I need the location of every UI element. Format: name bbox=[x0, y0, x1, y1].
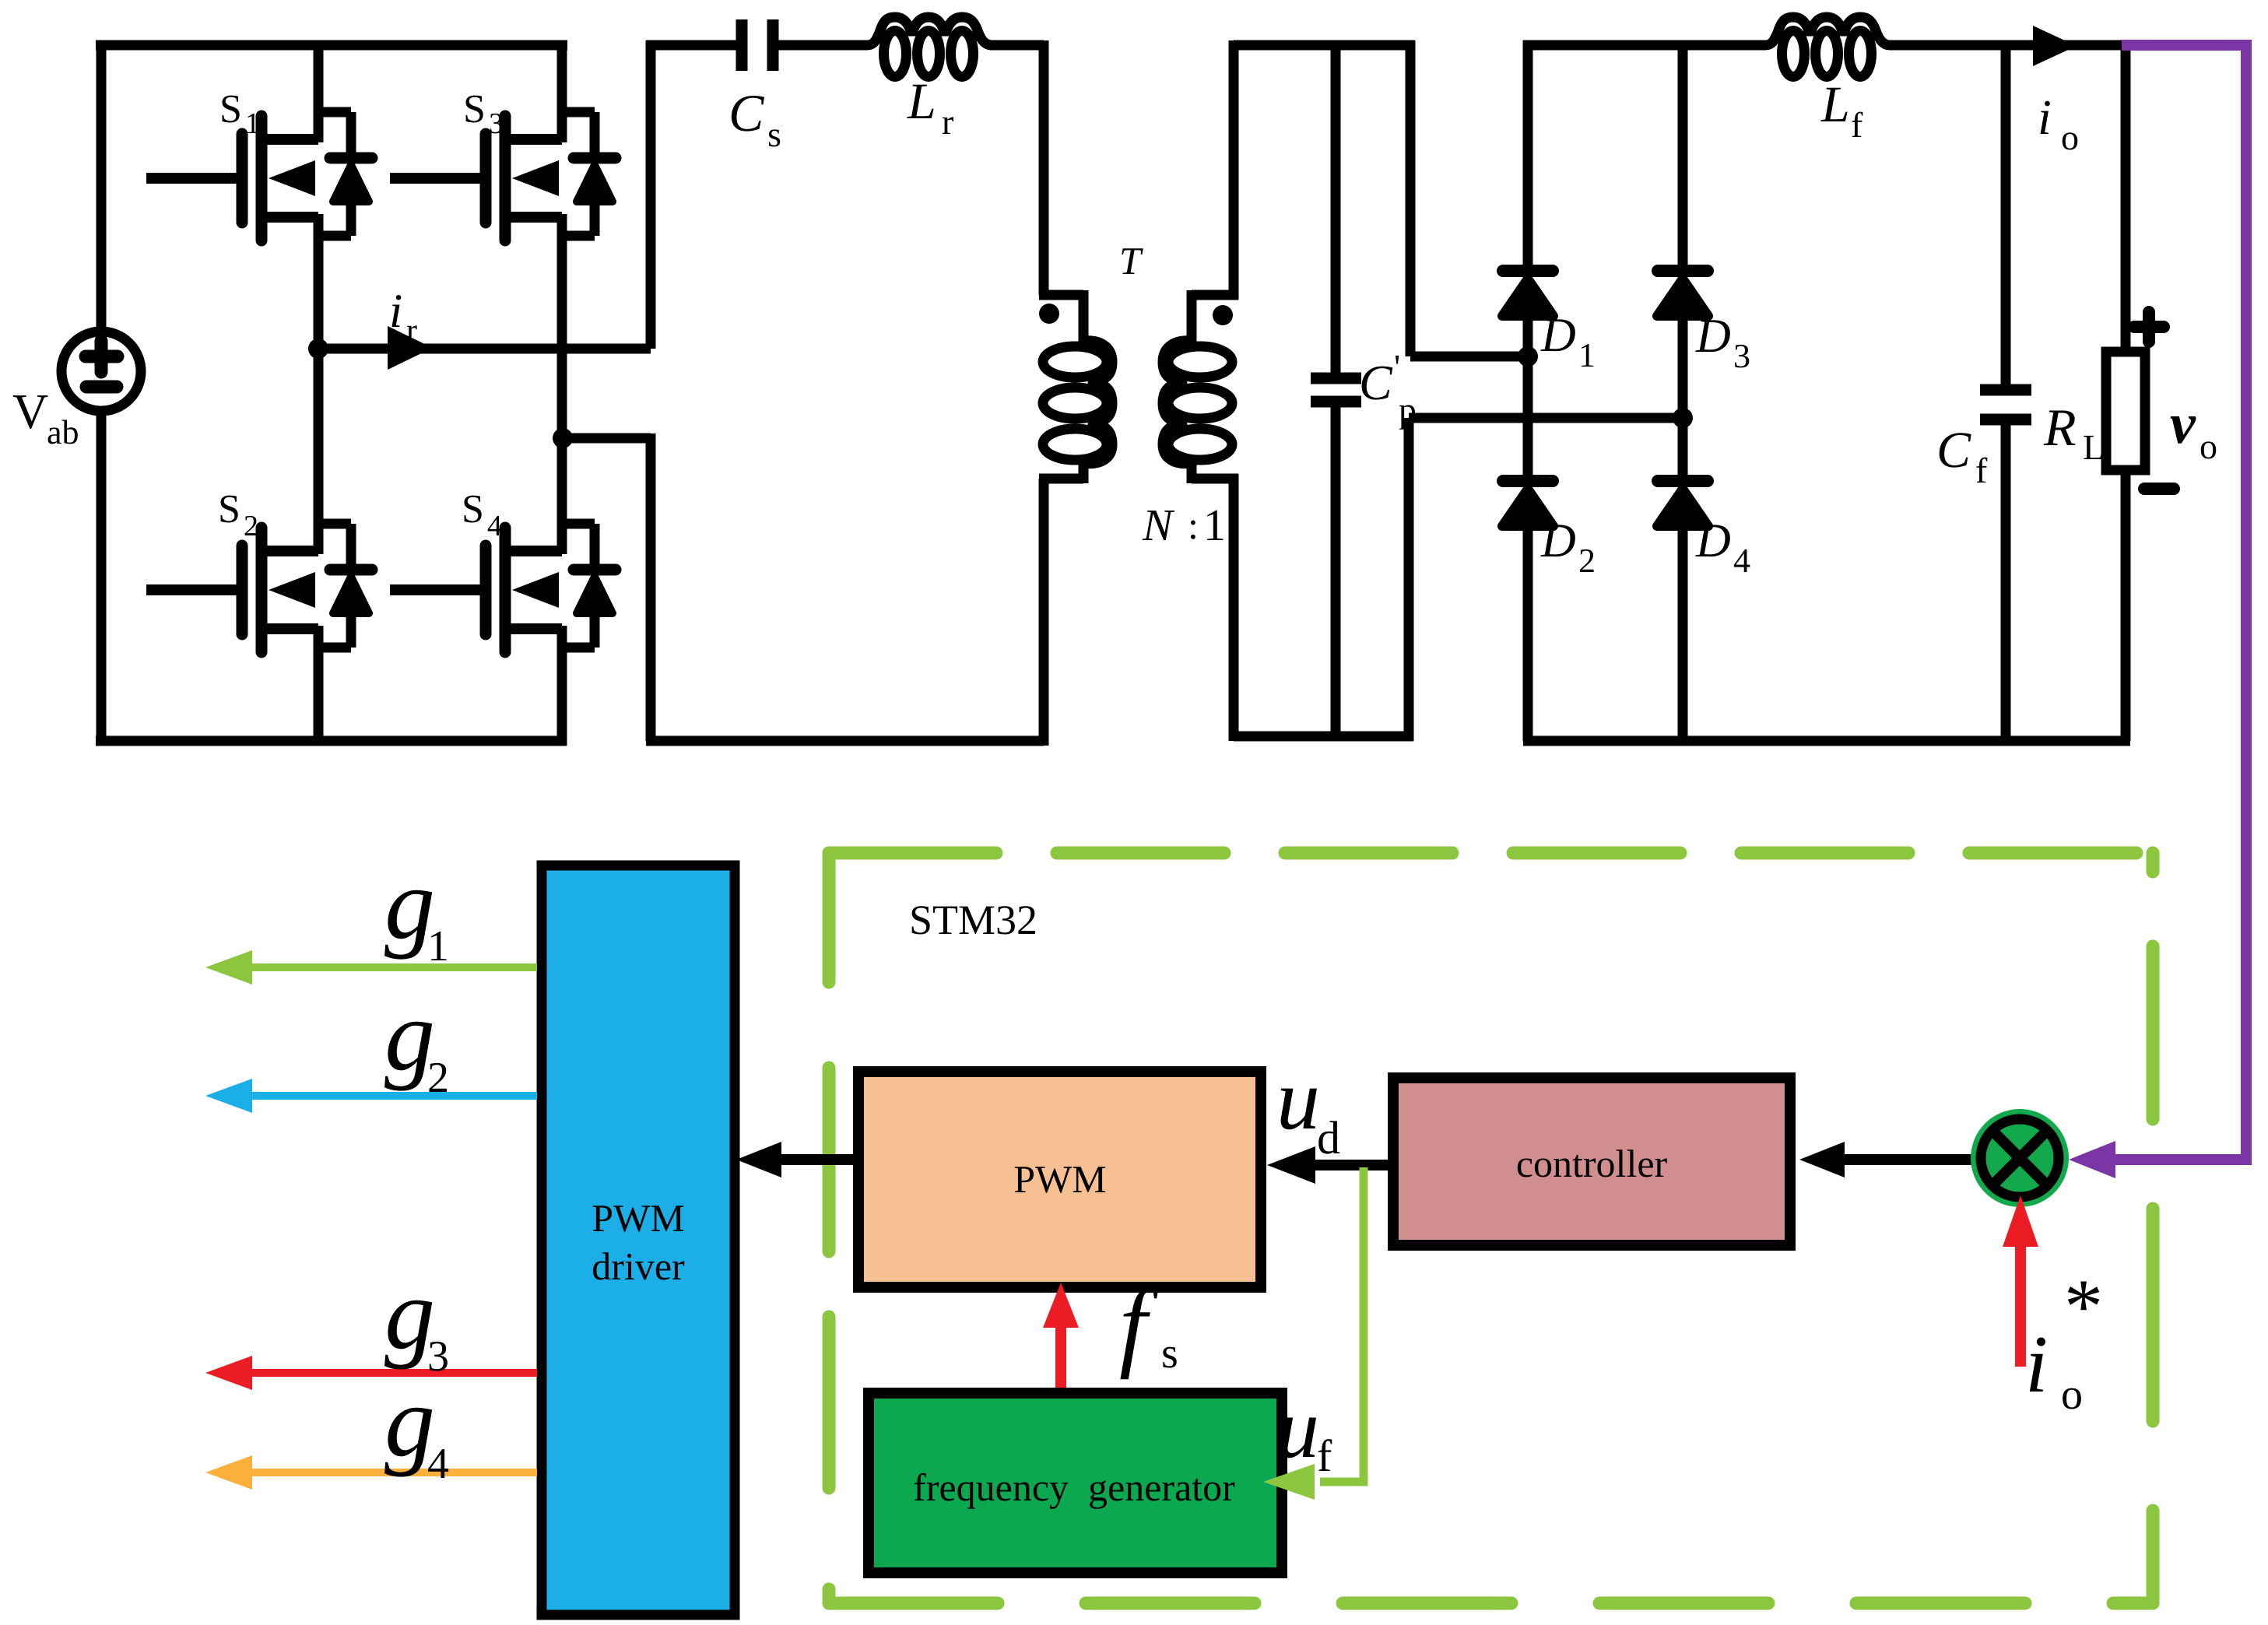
svg-text:S: S bbox=[463, 87, 486, 132]
wire secondary bottom jog bbox=[1192, 474, 1238, 484]
wire uf light green bbox=[1263, 1167, 1364, 1500]
wire Cs to Lr bbox=[778, 40, 864, 51]
svg-text:C: C bbox=[1359, 355, 1393, 410]
arrow g3 bbox=[205, 1356, 537, 1390]
wire S1 leg upper bbox=[314, 40, 324, 115]
label fs bbox=[1119, 1269, 1178, 1380]
diode D1 bbox=[1502, 271, 1554, 316]
svg-text:V: V bbox=[12, 384, 48, 439]
svg-text:C: C bbox=[728, 83, 764, 142]
arrow g2 bbox=[205, 1079, 537, 1113]
wire S4 leg upper bbox=[557, 438, 567, 527]
label uf bbox=[1276, 1381, 1332, 1481]
svg-text:1: 1 bbox=[245, 107, 260, 140]
svg-text:f: f bbox=[1975, 451, 1988, 490]
wire node b to return bbox=[563, 433, 651, 444]
label D4 bbox=[1695, 514, 1750, 580]
wire S4 leg lower bbox=[557, 644, 567, 746]
svg-text:i: i bbox=[389, 285, 402, 338]
wire left column bbox=[97, 40, 107, 328]
label Vab bbox=[12, 384, 79, 451]
svg-text:v: v bbox=[2170, 392, 2196, 456]
node D1 D2 junction bbox=[1518, 346, 1538, 367]
label D3 bbox=[1695, 310, 1750, 375]
wire secondary top jog bbox=[1192, 290, 1238, 300]
wire node a to tank bbox=[318, 344, 651, 354]
svg-text:r: r bbox=[942, 102, 953, 142]
svg-text:2: 2 bbox=[427, 1054, 449, 1102]
wire purple feedback bbox=[2069, 45, 2246, 1178]
svg-text:o: o bbox=[2061, 1371, 2083, 1419]
wire secondary top riser bbox=[1229, 40, 1239, 300]
transistor S4 bbox=[390, 521, 616, 658]
wire top rail bridge bbox=[96, 40, 567, 51]
arrow g1 bbox=[205, 950, 537, 984]
label S4 bbox=[462, 487, 502, 542]
arrow io bbox=[2033, 26, 2077, 66]
svg-text:*: * bbox=[2064, 1263, 2103, 1349]
wire D1 leg bbox=[1523, 40, 1533, 356]
svg-text:4: 4 bbox=[427, 1440, 449, 1488]
svg-text:i: i bbox=[2038, 89, 2052, 145]
wire left column lower bbox=[97, 415, 107, 746]
arrow io star red bbox=[2003, 1195, 2038, 1367]
wire rect left bottom riser bbox=[1404, 418, 1414, 741]
diode D2 bbox=[1502, 481, 1554, 526]
label g1 bbox=[384, 848, 449, 970]
svg-text:': ' bbox=[1394, 347, 1400, 387]
label g4 bbox=[384, 1366, 449, 1488]
label g2 bbox=[384, 980, 449, 1102]
svg-text:r: r bbox=[406, 313, 417, 349]
label io bbox=[2038, 89, 2079, 157]
wire primary bottom stub bbox=[1079, 461, 1089, 483]
wire Lr to corner bbox=[994, 40, 1044, 51]
wire S3 leg upper bbox=[557, 40, 567, 115]
arrow g4 bbox=[205, 1455, 537, 1490]
svg-text:frequency generator: frequency generator bbox=[913, 1465, 1235, 1509]
summing junction bbox=[1971, 1109, 2069, 1207]
svg-text:f: f bbox=[1317, 1430, 1332, 1481]
label Cf bbox=[1936, 422, 1988, 490]
svg-text:4: 4 bbox=[1733, 542, 1750, 580]
wire primary drop bbox=[1039, 40, 1049, 295]
wire primary bottom riser bbox=[1039, 479, 1049, 746]
svg-text:f: f bbox=[1851, 105, 1863, 145]
label io star bbox=[2025, 1263, 2103, 1419]
label D2 bbox=[1540, 514, 1596, 580]
secondary phase dot bbox=[1213, 305, 1233, 325]
resistor RL bbox=[2106, 45, 2145, 741]
transformer T secondary winding bbox=[1163, 341, 1232, 464]
wire D3 leg bbox=[1678, 40, 1688, 418]
svg-text:4: 4 bbox=[487, 510, 502, 542]
svg-text:o: o bbox=[2200, 426, 2217, 466]
node D3 D4 junction bbox=[1673, 408, 1693, 428]
svg-text:2: 2 bbox=[1578, 542, 1596, 580]
label S3 bbox=[463, 87, 504, 140]
capacitor Cs bbox=[742, 19, 773, 71]
node a junction bbox=[308, 339, 328, 359]
wire tank bottom bbox=[646, 736, 1044, 746]
transistor S1 bbox=[146, 110, 372, 247]
minus sign vo bbox=[2144, 483, 2174, 495]
svg-text:i: i bbox=[2025, 1318, 2048, 1409]
transformer T primary winding bbox=[1043, 341, 1112, 464]
svg-text:N: N bbox=[1142, 500, 1175, 550]
label S2 bbox=[218, 487, 258, 542]
wire secondary bottom rail bbox=[1234, 732, 1413, 742]
svg-text:S: S bbox=[218, 487, 240, 532]
wire primary bottom jog bbox=[1039, 474, 1083, 484]
svg-text:R: R bbox=[2043, 398, 2077, 457]
plus sign vo bbox=[2134, 312, 2164, 342]
arrow sum to controller bbox=[1799, 1142, 1972, 1178]
PWM box bbox=[858, 1072, 1261, 1287]
svg-text:C: C bbox=[1936, 422, 1971, 479]
wire rectifier top rail bbox=[1523, 40, 1762, 51]
wire secondary top stub bbox=[1187, 290, 1197, 343]
svg-text:o: o bbox=[2061, 118, 2079, 157]
svg-text:STM32: STM32 bbox=[909, 897, 1037, 943]
wire secondary bottom drop bbox=[1229, 474, 1239, 741]
svg-text:PWM: PWM bbox=[592, 1196, 684, 1240]
svg-text:2: 2 bbox=[244, 510, 258, 542]
svg-text:driver: driver bbox=[592, 1244, 685, 1288]
wire output bottom rail bbox=[1523, 736, 2130, 746]
wire secondary bottom stub bbox=[1187, 461, 1197, 483]
svg-text:3: 3 bbox=[1733, 337, 1750, 375]
label RL bbox=[2043, 398, 2105, 467]
wire tank riser bbox=[646, 40, 656, 349]
source Vab bbox=[61, 332, 141, 411]
label Lf bbox=[1820, 76, 1863, 145]
label ir bbox=[389, 285, 417, 349]
label g3 bbox=[384, 1258, 449, 1381]
wire D4 leg bbox=[1678, 418, 1688, 741]
label Cs bbox=[728, 83, 781, 154]
wire S3 leg lower bbox=[557, 232, 567, 438]
svg-text:D: D bbox=[1540, 514, 1576, 567]
svg-text:d: d bbox=[1317, 1112, 1340, 1163]
svg-text:S: S bbox=[219, 87, 242, 132]
wire S2 leg upper bbox=[314, 349, 324, 527]
label Lr bbox=[907, 73, 953, 142]
primary phase dot bbox=[1039, 304, 1059, 324]
wire primary top jog bbox=[1039, 290, 1083, 300]
wire return drop bbox=[646, 433, 656, 741]
wire S2 leg lower bbox=[314, 644, 324, 746]
label PWM driver bbox=[592, 1196, 685, 1288]
svg-text:D: D bbox=[1540, 309, 1576, 362]
STM32 dashed box bbox=[829, 853, 2153, 1603]
label S1 bbox=[219, 87, 260, 140]
wire bottom rail bridge bbox=[96, 736, 567, 746]
wire top to Cs bbox=[646, 40, 737, 51]
arrow PWM to driver bbox=[736, 1142, 858, 1178]
svg-text:L: L bbox=[907, 73, 936, 130]
svg-text:1: 1 bbox=[1578, 336, 1596, 374]
svg-text:T: T bbox=[1119, 239, 1143, 283]
diode D3 bbox=[1657, 271, 1708, 316]
capacitor Cp bbox=[1311, 45, 1361, 736]
wire rect left top drop bbox=[1406, 40, 1416, 356]
svg-text:1: 1 bbox=[427, 922, 449, 970]
svg-text:controller: controller bbox=[1516, 1142, 1668, 1185]
svg-text:L: L bbox=[1820, 76, 1850, 133]
svg-text:3: 3 bbox=[489, 107, 504, 140]
label D1 bbox=[1540, 309, 1596, 374]
svg-text:1: 1 bbox=[1203, 500, 1226, 550]
capacitor Cf bbox=[1980, 45, 2031, 741]
transistor S2 bbox=[146, 521, 372, 658]
svg-text:u: u bbox=[1276, 1381, 1319, 1476]
svg-text:S: S bbox=[462, 487, 484, 532]
svg-text:s: s bbox=[1161, 1329, 1178, 1378]
label vo bbox=[2170, 392, 2217, 466]
wire primary top stub bbox=[1079, 290, 1089, 343]
wire to D3 D4 node bbox=[1409, 413, 1683, 423]
wire secondary top rail bbox=[1234, 40, 1415, 51]
svg-text::: : bbox=[1188, 504, 1199, 547]
wire to D1 D2 node bbox=[1410, 352, 1528, 362]
svg-text:ab: ab bbox=[47, 413, 79, 451]
diode D4 bbox=[1657, 481, 1708, 526]
controller box bbox=[1393, 1078, 1790, 1245]
inductor Lr bbox=[861, 17, 997, 77]
svg-text:s: s bbox=[767, 114, 781, 154]
label ud bbox=[1276, 1051, 1340, 1163]
transistor S3 bbox=[390, 110, 616, 247]
svg-text:D: D bbox=[1695, 514, 1731, 567]
svg-text:u: u bbox=[1276, 1051, 1320, 1148]
arrow fs red bbox=[1043, 1283, 1079, 1398]
frequency generator box bbox=[869, 1393, 1282, 1573]
label Cp' bbox=[1359, 347, 1417, 430]
PWM driver box bbox=[542, 865, 735, 1615]
wire S1 leg lower bbox=[314, 232, 324, 349]
wire Lf to output bbox=[1891, 40, 2130, 51]
arrow controller to PWM bbox=[1267, 1146, 1393, 1184]
svg-text:L: L bbox=[2083, 427, 2105, 467]
wire D2 leg bbox=[1523, 356, 1533, 741]
svg-text:PWM: PWM bbox=[1013, 1157, 1106, 1201]
inductor Lf bbox=[1759, 17, 1895, 77]
node b junction bbox=[553, 428, 573, 448]
svg-text:D: D bbox=[1695, 310, 1731, 363]
arrow ir bbox=[388, 326, 433, 370]
